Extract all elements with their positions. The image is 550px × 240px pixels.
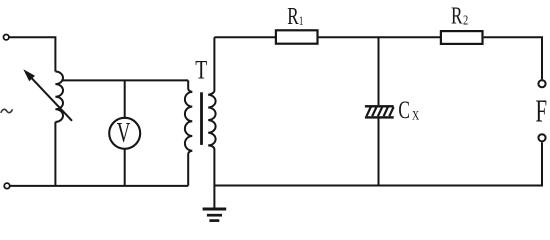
svg-text:T: T: [195, 56, 207, 86]
terminal (bottom-left input): [4, 183, 10, 189]
transformer T secondary winding + wire up to top rail and down to ground: [208, 37, 215, 208]
svg-text:1: 1: [299, 15, 303, 29]
label T: [195, 56, 207, 86]
transformer T primary winding: [185, 80, 192, 185]
svg-text:C: C: [398, 96, 410, 124]
wire: lower F terminal to bottom rail: [214, 142, 542, 185]
terminal F upper: [538, 80, 545, 87]
arrow of variable inductor: [31, 77, 73, 121]
wire: Cx branch upper: [378, 37, 380, 105]
transformer core: [200, 92, 203, 145]
wire: voltmeter branch top: [124, 80, 126, 117]
label V (voltmeter): [117, 117, 131, 149]
svg-text:R: R: [451, 1, 463, 29]
variable inductor (autotransformer) winding: [55, 72, 63, 122]
svg-text:R: R: [287, 2, 299, 30]
label R1: [287, 2, 299, 30]
terminal F lower: [538, 134, 545, 141]
wire: bottom-left rail: [10, 185, 188, 187]
svg-text:F: F: [536, 93, 548, 128]
resistor R1 body: [276, 30, 318, 43]
wire: left top rail (inductor tap to transformer primary): [61, 79, 188, 81]
ground symbol: [203, 209, 227, 221]
resistor R2 body: [441, 31, 483, 44]
wire: R2 to top-right corner down to F terminal: [484, 37, 542, 79]
wire: top rail secondary to R1: [214, 36, 276, 38]
AC source tilde ~: [1, 109, 13, 113]
terminal (top-left input): [3, 35, 8, 40]
wire: variable inductor bottom to bottom rail: [54, 122, 56, 186]
label F: [536, 93, 548, 128]
wire: Cx branch lower: [378, 118, 380, 185]
voltmeter V circle: [109, 118, 140, 149]
wire: R1 to Cx node to R2: [319, 36, 441, 38]
capacitor Cx (hatched test object): [365, 105, 394, 119]
label Cx: [398, 96, 410, 124]
label R2: [451, 1, 463, 29]
svg-text:X: X: [412, 109, 419, 122]
svg-text:2: 2: [463, 12, 468, 28]
wire: voltmeter branch bottom: [124, 150, 126, 186]
svg-text:V: V: [117, 117, 131, 149]
wire: top-left terminal to variable inductor top: [9, 37, 56, 71]
